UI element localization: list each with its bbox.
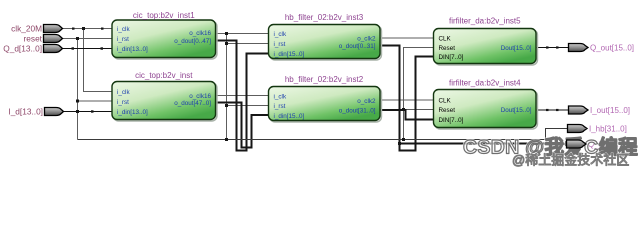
watermark CSDN @我爱C编程: [463, 136, 638, 159]
svg-text:i_clk: i_clk: [117, 26, 130, 33]
tick on Dout4 wire: [546, 109, 549, 111]
wire bus fir5.Dout to pin Q_out: [536, 47, 568, 49]
svg-text:firfilter_da:b2v_inst5: firfilter_da:b2v_inst5: [449, 17, 521, 26]
tick on clk wire: [72, 28, 75, 30]
output pin Q_hb[31..0]: [567, 140, 587, 148]
svg-text:I_hb[31..0]: I_hb[31..0]: [589, 124, 627, 133]
wire bus cic1.o_dout loop to hb3.i_din: [216, 41, 269, 151]
svg-text:o_clk16: o_clk16: [189, 30, 211, 37]
junction hb2 i_rst branch: [225, 104, 228, 107]
junction hb riser at rail: [225, 138, 228, 141]
svg-text:hb_filter_02:b2v_inst3: hb_filter_02:b2v_inst3: [285, 13, 364, 22]
tick on Q_d wire: [72, 47, 75, 49]
svg-text:i_rst: i_rst: [274, 103, 286, 110]
wire bus hb3.o_dout loop to fir5.DIN: [380, 46, 434, 151]
wire bottom rail 1 to pin I_hb: [78, 129, 568, 140]
wire reset to cic1.i_rst: [61, 38, 112, 40]
block drop shadows: [113, 21, 537, 128]
wire bus fir4.Dout to pin I_out: [536, 109, 568, 111]
svg-text:i_clk: i_clk: [274, 31, 287, 38]
svg-text:firfilter_da:b2v_inst4: firfilter_da:b2v_inst4: [449, 79, 521, 88]
wire bus hb2.o_dout to fir4.DIN: [380, 110, 434, 120]
svg-text:hb_filter_02:b2v_inst2: hb_filter_02:b2v_inst2: [285, 75, 364, 84]
svg-text:Reset: Reset: [439, 107, 456, 114]
wire reset branch to cic2.i_rst: [78, 100, 113, 102]
junction hb riser at i_rst branch: [225, 42, 228, 45]
input pin Q_d[13..0]: [3, 43, 62, 53]
wire bus Q_d to cic1.i_din: [61, 48, 112, 50]
svg-text:o_dout[0..31]: o_dout[0..31]: [339, 43, 376, 50]
junction clk branch: [82, 27, 85, 30]
svg-text:i_clk: i_clk: [117, 89, 130, 96]
junction on I_d wire: [76, 110, 79, 113]
output pin Q_out[15..0]: [569, 43, 635, 52]
wire bus bottom rail 2 to pin Q_hb: [400, 143, 567, 146]
svg-text:Q_d[13..0]: Q_d[13..0]: [3, 43, 42, 53]
wire clk vertical branch to cic2.i_clk: [84, 29, 113, 92]
svg-text:o_clk2: o_clk2: [357, 98, 376, 105]
svg-text:o_clk16: o_clk16: [189, 93, 211, 100]
wire cic1.o_clk16 to hb3.i_clk: [216, 33, 269, 35]
block firfilter_da:b2v_inst5: [434, 17, 537, 64]
junction fir riser at rail: [402, 138, 405, 141]
svg-text:i_clk: i_clk: [274, 94, 287, 101]
wire reset vertical down to bottom rail: [77, 39, 79, 140]
block cic_top:b2v_inst1: [112, 11, 216, 58]
input pin clk_20M: [11, 23, 62, 33]
svg-text:i_rst: i_rst: [117, 99, 129, 106]
junction fir4 Reset branch: [402, 108, 405, 111]
wire reset riser to fir5.Reset and fir4.Reset: [404, 48, 434, 140]
svg-text:i_rst: i_rst: [274, 41, 286, 48]
svg-text:i_din[15..0]: i_din[15..0]: [274, 51, 305, 58]
svg-text:DIN[7..0]: DIN[7..0]: [439, 117, 464, 124]
svg-text:i_din[13..0]: i_din[13..0]: [117, 46, 148, 53]
svg-text:o_dout[0..47]: o_dout[0..47]: [174, 38, 211, 45]
svg-text:i_din[15..0]: i_din[15..0]: [274, 113, 305, 120]
output pin I_out[15..0]: [569, 106, 631, 115]
tick on I_d wire: [91, 110, 94, 112]
svg-text:o_dout[31..0]: o_dout[31..0]: [339, 108, 376, 115]
junction reset at cic2.i_rst: [76, 100, 79, 103]
block hb_filter_02:b2v_inst3: [269, 13, 381, 59]
output pin I_hb[31..0]: [568, 124, 627, 133]
wire bus I_d to cic2.i_din: [61, 111, 112, 113]
svg-text:DIN[7..0]: DIN[7..0]: [439, 54, 464, 61]
wire clk_20M to cic1.i_clk: [61, 28, 112, 30]
junction reset branch top: [76, 37, 79, 40]
wire hb3.o_clk2 to fir5.CLK: [380, 37, 434, 39]
svg-text:Reset: Reset: [439, 45, 456, 52]
svg-text:Dout[15..0]: Dout[15..0]: [501, 45, 532, 52]
block firfilter_da:b2v_inst4: [434, 79, 537, 128]
watermark @稀土掘金技术社区: [512, 153, 629, 168]
wire cic2.o_clk16 to hb2.i_clk: [216, 95, 269, 97]
svg-text:o_dout[47..0]: o_dout[47..0]: [174, 100, 211, 107]
svg-text:I_d[13..0]: I_d[13..0]: [8, 106, 43, 116]
svg-text:Q_out[15..0]: Q_out[15..0]: [590, 43, 634, 52]
input pin reset: [24, 33, 63, 43]
svg-text:o_clk2: o_clk2: [357, 36, 376, 43]
tick on Dout5 wire: [546, 46, 549, 48]
svg-text:cic_top:b2v_inst: cic_top:b2v_inst: [135, 71, 193, 80]
svg-text:@稀土掘金技术社区: @稀土掘金技术社区: [512, 153, 629, 168]
svg-text:reset: reset: [24, 33, 43, 43]
wire bus cic2.o_dout loop to hb2.i_din: [216, 103, 269, 148]
svg-text:Dout[15..0]: Dout[15..0]: [501, 107, 532, 114]
input pin I_d[13..0]: [8, 106, 63, 116]
junction hb riser on o_clk16 wire: [225, 32, 228, 35]
svg-text:clk_20M: clk_20M: [11, 23, 42, 33]
svg-text:I_out[15..0]: I_out[15..0]: [590, 106, 630, 115]
block cic_top:b2v_inst: [112, 71, 216, 120]
svg-text:i_rst: i_rst: [117, 36, 129, 43]
svg-text:CLK: CLK: [439, 98, 452, 105]
junction rail2 tap: [398, 142, 401, 145]
wire hb2.o_clk2 to fir4.CLK: [380, 99, 434, 101]
wire reset riser to hb3.i_rst and hb2.i_rst: [227, 34, 269, 140]
svg-text:CLK: CLK: [439, 36, 452, 43]
svg-text:cic_top:b2v_inst1: cic_top:b2v_inst1: [133, 11, 195, 20]
block hb_filter_02:b2v_inst2: [269, 75, 381, 121]
svg-text:i_din[13..0]: i_din[13..0]: [117, 109, 148, 116]
